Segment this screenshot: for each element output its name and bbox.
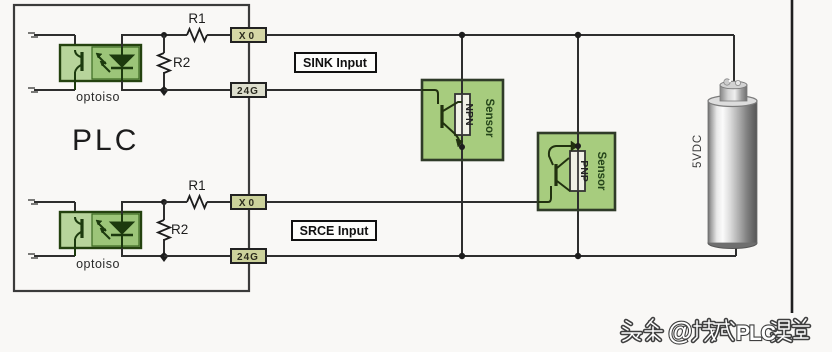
- watermark: 头条 @技成PLC课堂: [622, 318, 809, 346]
- battery 24V cell: [708, 79, 757, 249]
- wire: level-2 stub (opto1 emitter): [28, 88, 75, 92]
- node: PNP top junction: [575, 143, 581, 149]
- svg-text:SINK Input: SINK Input: [303, 56, 368, 70]
- node: top rail / PNP: [575, 32, 581, 38]
- svg-text:SRCE Input: SRCE Input: [300, 224, 370, 238]
- wire: LED anode to rail (level 1): [122, 35, 164, 47]
- node: NPN emitter junction: [459, 144, 465, 150]
- transistor Q2 (PNP sensor): [538, 141, 578, 202]
- wire: level2 to NPN sensor: [266, 89, 422, 91]
- terminal X0 (level3): [231, 195, 266, 209]
- light arrows (opto1): [96, 53, 110, 72]
- border line (right): [791, 0, 794, 313]
- svg-text:X0: X0: [239, 198, 257, 209]
- resistor R1 (bottom): [187, 196, 207, 208]
- wire: opto2 LED cathode to level4: [122, 248, 164, 256]
- wire: level3 segments: [164, 201, 231, 203]
- wire: LED cathode to level2: [122, 81, 164, 90]
- PNP sensor box: [538, 133, 615, 210]
- LED D (opto2 input): [110, 214, 134, 248]
- wire: junction to terminal (level4): [164, 255, 231, 257]
- svg-text:X0: X0: [239, 31, 257, 42]
- wire: level3 to PNP sensor: [266, 201, 538, 203]
- node: junction level4: [160, 252, 169, 262]
- svg-text:PLC: PLC: [736, 322, 776, 345]
- transistor Q (opto1 output): [75, 50, 82, 90]
- svg-text:Sensor: Sensor: [595, 152, 607, 192]
- resistor R2 (bottom, vertical): [158, 202, 188, 256]
- wire: opto2 LED anode to level3: [122, 202, 164, 214]
- node: bottom rail / NPN: [459, 253, 465, 259]
- wire: R1 to terminal X0: [207, 34, 231, 36]
- wire: NPN drop from top rail: [461, 35, 463, 256]
- node: top rail / NPN: [459, 32, 465, 38]
- svg-text:24G: 24G: [237, 252, 259, 263]
- resistor R2 (top, vertical): [158, 35, 190, 90]
- svg-text:R2: R2: [171, 222, 188, 237]
- transistor Q1 (NPN sensor): [422, 90, 463, 147]
- svg-text:NPN: NPN: [463, 103, 475, 125]
- svg-text:R2: R2: [173, 55, 190, 70]
- node: junction top-left: [161, 32, 167, 38]
- svg-text:24G: 24G: [237, 86, 259, 97]
- transistor Q (opto2 output): [75, 217, 82, 256]
- wire: level-4 stub (opto2 emitter): [28, 254, 75, 258]
- svg-text:Sensor: Sensor: [483, 99, 495, 139]
- svg-text:PNP: PNP: [578, 160, 590, 182]
- svg-text:R1: R1: [188, 178, 205, 193]
- terminal X0 (top): [231, 28, 266, 42]
- wire: junction to terminal 24G: [164, 89, 231, 91]
- svg-text:R1: R1: [188, 11, 205, 26]
- svg-text:optoiso: optoiso: [76, 257, 120, 271]
- wire: top rail corner to battery: [733, 35, 735, 82]
- SINK Input label: [295, 53, 376, 72]
- node: bottom rail / PNP: [575, 253, 581, 259]
- terminal 24G (level2): [231, 83, 266, 97]
- LED D (opto1 input): [110, 47, 134, 81]
- SRCE Input label: [292, 221, 376, 240]
- node: junction level2: [160, 86, 169, 96]
- PLC enclosure box: [14, 5, 249, 291]
- resistor R1 (top): [187, 29, 207, 41]
- svg-text:optoiso: optoiso: [76, 90, 120, 104]
- wire: PNP drop from top rail: [577, 35, 579, 256]
- svg-text:PLC: PLC: [72, 124, 139, 157]
- optocoupler opto1 (top): [60, 45, 141, 81]
- wire: bottom rail corner to battery: [735, 244, 737, 256]
- wire: top rail (level 1): [266, 34, 734, 36]
- NPN sensor box: [422, 80, 503, 160]
- wire: bottom-left stub (level 3): [28, 200, 75, 217]
- wire: level1 junction to R1: [164, 34, 187, 36]
- light arrows (opto2): [96, 220, 110, 239]
- svg-text:5VDC: 5VDC: [692, 134, 704, 168]
- wire: top-left stub (level 1): [28, 33, 75, 50]
- terminal 24G (level4): [231, 249, 266, 263]
- wire: bottom rail (level 4): [266, 255, 736, 257]
- svg-text:@: @: [668, 318, 692, 346]
- node: junction level3: [161, 199, 167, 205]
- optocoupler opto2 (bottom): [60, 212, 141, 248]
